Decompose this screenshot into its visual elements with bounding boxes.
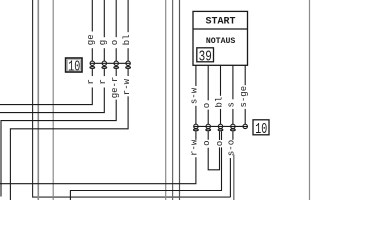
wire W4 r-w lower stub xyxy=(127,69,129,76)
svg-text:o: o xyxy=(215,141,225,146)
svg-text:ge: ge xyxy=(86,34,96,45)
svg-text:10: 10 xyxy=(68,59,80,75)
wire W1 r lower stub xyxy=(91,69,93,76)
svg-text:r: r xyxy=(98,79,108,84)
svg-text:ge-r: ge-r xyxy=(110,77,120,99)
wire P3 bl to circle xyxy=(220,109,222,124)
wire P2 o to circle xyxy=(207,110,209,125)
svg-text:r-w: r-w xyxy=(190,139,200,156)
svg-text:NOTAUS: NOTAUS xyxy=(206,37,236,46)
connector X10 left pin 1 circle xyxy=(90,61,94,65)
wire P3 s below connector xyxy=(221,131,223,140)
svg-text:r: r xyxy=(86,79,96,84)
wire P2 o below connector xyxy=(207,131,209,140)
pin stub P4 from box xyxy=(232,65,234,99)
connector X10 left pin 3 circle xyxy=(114,61,118,65)
connector X10 right pin 2 circle xyxy=(206,124,210,128)
connector X10 right bus xyxy=(194,125,248,127)
wire P4 s-o below connector xyxy=(232,131,234,140)
connector X10 right pin 2 plug lens xyxy=(206,129,211,131)
wire W2 g top segment xyxy=(103,0,105,37)
wire long vertical V1 x=32.6 xyxy=(33,0,231,197)
svg-text:o: o xyxy=(202,140,212,145)
wire W3 o top segment xyxy=(115,0,117,37)
svg-text:s-ge: s-ge xyxy=(239,86,249,108)
connector X10 right pin 4 circle xyxy=(231,124,235,128)
svg-text:g: g xyxy=(98,40,108,45)
connector X10 right pin 1 plug lens xyxy=(194,129,199,131)
button box START / NOTAUS outline xyxy=(193,11,248,65)
wire long vertical V2 x=38.3 xyxy=(37,0,39,200)
svg-text:bl: bl xyxy=(214,97,224,108)
svg-text:o: o xyxy=(202,103,212,108)
svg-text:s-w: s-w xyxy=(190,87,200,104)
svg-text:39: 39 xyxy=(199,48,212,65)
wire companion grey at pin4 to bottom edge xyxy=(233,155,235,201)
wire W1 ge top segment xyxy=(91,0,93,32)
wire W2 r lower stub xyxy=(103,69,105,76)
wire P1 s-w to circle xyxy=(195,106,197,124)
svg-text:bl: bl xyxy=(122,34,132,45)
connector X10 left pin 2 plug lens xyxy=(102,67,107,69)
wire P4 s to circle xyxy=(232,109,234,124)
svg-text:10: 10 xyxy=(255,121,267,137)
wire P1 r-w below connector xyxy=(195,131,197,140)
wire W4 elbow down left column x=10.4 xyxy=(10,96,128,200)
wire long vertical V7 x=309.5 xyxy=(309,0,311,200)
connector X10 right pin 5 circle xyxy=(243,124,247,128)
pin stub P1 from box xyxy=(195,65,197,86)
plug designation box 10 right xyxy=(253,120,269,138)
svg-text:s-o: s-o xyxy=(227,140,237,156)
wire P5 s-ge to circle xyxy=(244,109,246,124)
svg-text:START: START xyxy=(205,17,235,28)
wire long vertical V3 x=53.2 xyxy=(52,0,54,200)
pin stub P3 from box xyxy=(220,65,222,96)
wire W2 elbow to left edge y=112.6 xyxy=(0,88,104,113)
connector X10 right pin 4 plug lens xyxy=(231,129,236,131)
connector X10 left pin 4 plug lens xyxy=(126,67,131,69)
connector X10 left pin 3 plug lens xyxy=(114,67,119,69)
connector X10 left pin 4 circle xyxy=(126,61,130,65)
connector X10 left pin 1 plug lens xyxy=(90,67,95,69)
connector X10 right pin 1 circle xyxy=(194,124,198,128)
connector X10 right pin 3 plug lens xyxy=(218,129,223,131)
button box divider xyxy=(193,28,248,30)
plug designation box 39 xyxy=(197,48,214,65)
wire long vertical V4 x=165.7 xyxy=(165,0,167,200)
connector X10 left bus xyxy=(90,62,130,64)
plug designation box 10 left xyxy=(66,58,82,75)
svg-text:o: o xyxy=(110,40,120,45)
wire W1 elbow to left edge y=104.6 xyxy=(0,88,92,105)
wire long vertical V6 x=179.5 xyxy=(179,0,181,200)
wire jumper P2 to P3 xyxy=(208,147,219,169)
wire W3 ge-r lower stub xyxy=(115,69,117,76)
wire W3 elbow down left column x=1 xyxy=(1,100,116,197)
connector X10 right pin 3 circle xyxy=(218,124,222,128)
connector X10 left pin 2 circle xyxy=(102,61,106,65)
pin stub P2 from box xyxy=(207,65,209,100)
wire long vertical V5 x=172.6 xyxy=(172,0,174,200)
svg-text:s: s xyxy=(227,102,237,107)
svg-text:r-w: r-w xyxy=(122,78,132,95)
wire W4 bl top segment xyxy=(127,0,129,32)
pin stub P5 from box xyxy=(244,65,246,85)
